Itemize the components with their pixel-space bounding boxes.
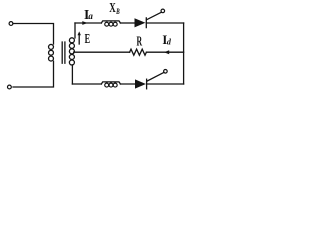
inductor bottom bbox=[101, 82, 120, 84]
thyristor V1 triangle bbox=[135, 18, 146, 27]
wire: secondary bottom lead down to bottom branch bbox=[71, 65, 73, 84]
gate lead V1 bbox=[147, 12, 162, 20]
right rail bbox=[183, 23, 185, 84]
svg-text:R: R bbox=[137, 33, 143, 48]
wire: top branch (secondary to inductor) bbox=[75, 22, 101, 24]
svg-text:E: E bbox=[85, 31, 91, 46]
wire: bottom branch (inductor to thyristor anode) bbox=[120, 83, 135, 85]
thyristor V2 cathode bar bbox=[146, 79, 148, 89]
wire: primary to bottom-left terminal bbox=[13, 61, 54, 87]
transformer core bbox=[62, 42, 65, 63]
resistor R bbox=[130, 49, 147, 55]
thyristor V1 cathode bar bbox=[145, 18, 147, 28]
wire: center tap to resistor bbox=[74, 51, 130, 53]
terminal top-left bbox=[9, 22, 13, 26]
thyristor V2 triangle bbox=[135, 79, 146, 88]
wire: thyristor V2 cathode to right rail bbox=[147, 83, 184, 85]
svg-text:a: a bbox=[88, 11, 93, 21]
transformer secondary winding bbox=[69, 38, 74, 43]
terminal bottom-left bbox=[7, 85, 11, 89]
wire: top branch (inductor to thyristor anode) bbox=[120, 22, 134, 24]
svg-text:X: X bbox=[109, 0, 116, 15]
svg-text:B: B bbox=[115, 7, 120, 16]
gate terminal V1 bbox=[161, 9, 165, 13]
wire: resistor to right rail bbox=[146, 51, 183, 53]
wire: thyristor V1 cathode to right rail bbox=[146, 22, 183, 24]
wire: secondary top lead up to top branch bbox=[74, 23, 76, 38]
svg-text:d: d bbox=[167, 38, 172, 47]
wire: bottom branch (secondary to inductor) bbox=[72, 83, 101, 85]
gate lead V2 bbox=[147, 72, 164, 81]
EMF arrowhead (E) bbox=[78, 31, 81, 35]
current arrow I_a (right) bbox=[82, 21, 87, 25]
wire: top-left terminal to primary bbox=[13, 24, 54, 45]
transformer primary winding bbox=[49, 44, 54, 49]
gate terminal V2 bbox=[164, 70, 168, 74]
EMF arrow (E) bbox=[78, 34, 80, 45]
inductor X_B top bbox=[101, 21, 120, 23]
current arrow I_d (left) bbox=[164, 50, 169, 54]
